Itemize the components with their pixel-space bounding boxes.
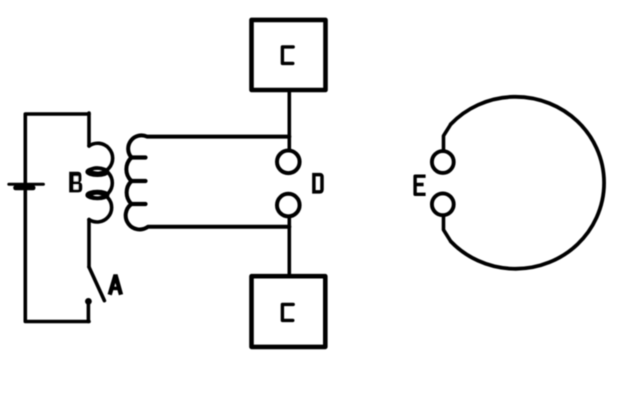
label A (110, 276, 120, 292)
label B (69, 172, 82, 193)
switch A lever (89, 267, 104, 301)
wire stub to top ball (444, 124, 451, 149)
capacitor plate box C top (252, 20, 326, 90)
wire box C top to spark ball (287, 92, 291, 149)
inductor B crossover ellipse 2 (87, 191, 108, 198)
receiver loop E main arc (451, 97, 604, 269)
inductor secondary tick 3 (131, 202, 146, 206)
wire battery loop left/top/bottom (25, 114, 89, 322)
wire from top wire down to coil B (87, 113, 91, 146)
spark gap ball D top (277, 151, 300, 174)
inductor B primary coil bumps (89, 143, 113, 222)
spark ball E top (432, 151, 454, 173)
battery long plate (9, 183, 44, 186)
label E (415, 176, 424, 194)
wire from switch dot to bottom wire (87, 301, 91, 321)
label D (314, 175, 322, 192)
inductor secondary tick 1 (131, 155, 146, 159)
switch A contact dot (85, 298, 92, 305)
wire spark ball to box C bottom (287, 217, 291, 274)
inductor B crossover ellipse 1 (87, 168, 108, 175)
wire stub to bottom ball (444, 217, 451, 241)
capacitor plate box C bottom (252, 276, 326, 347)
inductor secondary coil outline (126, 135, 290, 229)
label C bottom (282, 304, 293, 320)
battery short plate (16, 185, 33, 190)
label C top (282, 47, 293, 64)
spark ball E bottom (432, 193, 454, 215)
spark gap ball D bottom (277, 194, 300, 217)
inductor secondary tick 2 (131, 179, 146, 183)
wire from coil B down to switch (87, 220, 91, 268)
